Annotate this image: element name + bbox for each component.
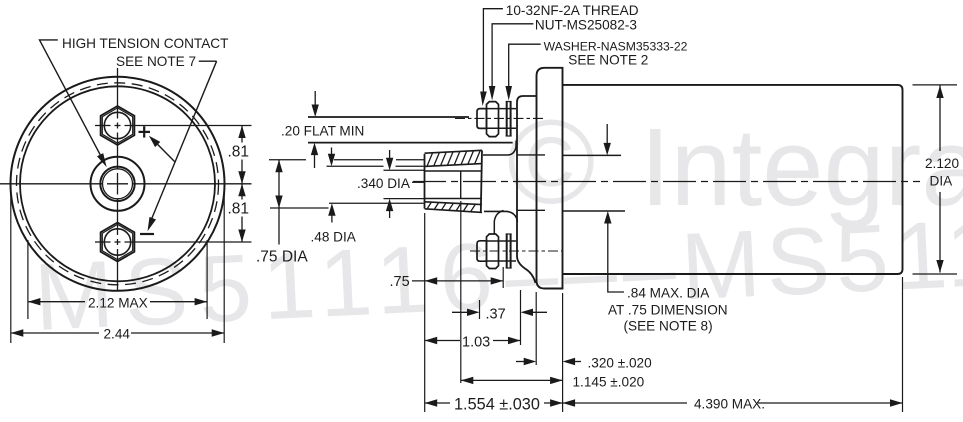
inner shell circle (20, 86, 215, 281)
dim .340 arrows (389, 150, 391, 159)
lower stud end cap (477, 241, 487, 261)
top nut MS25082 (487, 102, 499, 137)
leader high tension contact (40, 40, 104, 161)
top washer (506, 101, 508, 137)
dim .48 arrows (331, 148, 333, 156)
leader washer (509, 44, 541, 86)
svg-text:.81: .81 (228, 144, 250, 161)
dimension 2.12 MAX line (28, 301, 85, 303)
svg-text:.48 DIA: .48 DIA (311, 230, 357, 245)
bottom nut centerline extension (95, 241, 252, 243)
svg-text:4.390 MAX.: 4.390 MAX. (694, 397, 765, 412)
dim .37 (452, 311, 473, 313)
insulator bottom thread band (425, 202, 483, 205)
svg-text:2.44: 2.44 (104, 327, 131, 342)
svg-text:HIGH TENSION CONTACT: HIGH TENSION CONTACT (62, 36, 228, 51)
mounting bracket profile (517, 96, 537, 283)
dim 1.03 (425, 340, 460, 342)
neck top line (518, 154, 546, 156)
.84 neck line upper right (563, 154, 622, 156)
svg-text:2.120: 2.120 (925, 156, 959, 171)
top hex nut inner (102, 108, 132, 143)
body top edge (563, 85, 903, 274)
extension line .340 dia top (384, 169, 425, 171)
plus datum mark (139, 126, 151, 137)
extension line .75 dia top (269, 159, 424, 161)
insulator right face (481, 150, 482, 212)
leader arrow to plus (156, 143, 175, 162)
insulator top thread band (425, 150, 483, 153)
insulator left face (424, 154, 426, 209)
dim 1.554 (425, 402, 450, 404)
dim .84 upper arrow (606, 124, 608, 144)
center contact outer circle (91, 157, 145, 211)
svg-text:.75 DIA: .75 DIA (256, 249, 308, 266)
svg-text:WASHER-NASM35333-22: WASHER-NASM35333-22 (544, 40, 688, 54)
bottom nut hole circle (104, 229, 130, 255)
top band hatching (427, 151, 480, 166)
minus datum mark (140, 233, 154, 235)
leader .340 DIA dash (412, 181, 424, 183)
dim .75 DIA vertical (278, 160, 280, 245)
svg-text:1.554 ±.030: 1.554 ±.030 (454, 396, 540, 414)
dashed bolt circle (17, 83, 219, 285)
svg-text:.20 FLAT MIN: .20 FLAT MIN (281, 124, 364, 139)
top nut centerline extension (95, 125, 252, 127)
svg-text:SEE NOTE 7: SEE NOTE 7 (116, 54, 196, 69)
dimension 2.44 line (11, 332, 99, 334)
leader see note 7 elbow (199, 60, 217, 62)
top hex nut outer (101, 106, 135, 145)
svg-text:.340 DIA: .340 DIA (357, 176, 411, 191)
dim 2.120 line (939, 86, 941, 152)
extension line .340 dia bottom (384, 198, 425, 200)
leader 10-32 thread (483, 9, 503, 92)
top nut hole circle (104, 112, 130, 138)
center contact inner ring (103, 169, 133, 199)
svg-text:DIA: DIA (930, 174, 954, 189)
top stud centerline (455, 117, 545, 119)
dimension 2.12 MAX extension lines (27, 240, 29, 319)
lower nut (487, 234, 499, 269)
dim 1.145 (461, 379, 563, 381)
center contact ring (100, 167, 134, 201)
insulator inner vertical line (460, 171, 462, 199)
svg-text:.37: .37 (486, 307, 506, 323)
watermark MS51116 (32, 194, 963, 351)
svg-text:1.145 ±.020: 1.145 ±.020 (573, 375, 645, 390)
svg-text:NUT-MS25082-3: NUT-MS25082-3 (535, 18, 637, 33)
extension line .48 dia bottom (329, 202, 424, 204)
lower stud shank lines (487, 240, 517, 242)
lower washer (506, 234, 508, 269)
neck bottom line (518, 209, 546, 211)
dim .75 horizontal (412, 280, 503, 282)
svg-text:©: © (507, 95, 595, 229)
extension lines 2.120 (913, 84, 958, 86)
vertical centerline (117, 68, 119, 291)
top stud shank lines (487, 108, 517, 110)
bottom band hatching (427, 202, 475, 211)
dimension 2.44 extension lines (10, 192, 12, 343)
svg-text:.81: .81 (228, 201, 250, 218)
watermark copyright Integra (32, 95, 963, 351)
dim .84 lower arrow and leader (608, 223, 624, 293)
mounting flange (537, 68, 563, 289)
svg-text:.84 MAX. DIA: .84 MAX. DIA (627, 286, 710, 301)
dimension .81 line (241, 126, 243, 143)
extension line .75 dia bottom (270, 207, 329, 209)
insulator top fillet to bracket (483, 141, 516, 156)
svg-text:2.12 MAX: 2.12 MAX (88, 296, 148, 311)
.84 neck line lower right (563, 210, 626, 212)
dim .20 flat arrows (314, 91, 316, 106)
top stud end cap (477, 109, 487, 129)
svg-text:.320 ±.020: .320 ±.020 (588, 356, 653, 371)
bracket tab lower (494, 211, 503, 234)
main centerline (413, 181, 920, 183)
horizontal centerline / middle extension line (0, 183, 252, 185)
insulator bottom fillet to bracket (484, 211, 517, 222)
terminal blade top edge (308, 116, 469, 118)
svg-text:.75: .75 (390, 274, 410, 290)
leader see note 7 to minus (150, 61, 217, 224)
svg-text:(SEE NOTE 8): (SEE NOTE 8) (624, 319, 713, 334)
bottom hex nut inner (102, 224, 132, 259)
terminal blade bottom edge (308, 142, 513, 144)
svg-text:AT .75 DIMENSION: AT .75 DIMENSION (608, 303, 728, 318)
bottom dimension extension lines (424, 213, 426, 412)
svg-text:10-32NF-2A THREAD: 10-32NF-2A THREAD (506, 3, 639, 18)
dim .320 (516, 361, 530, 363)
dim 4.390 (563, 402, 687, 404)
bottom hex nut outer (101, 223, 135, 262)
outer shell circle (11, 77, 225, 291)
lower stud centerline (470, 250, 563, 252)
extension line .48 dia top (327, 165, 424, 167)
svg-text:SEE NOTE 2: SEE NOTE 2 (568, 53, 648, 68)
insulator bore bottom line (425, 198, 483, 200)
insulator bore top line (425, 170, 483, 172)
leader nut (492, 24, 533, 86)
extension line body right (902, 277, 904, 412)
svg-text:1.03: 1.03 (462, 335, 490, 351)
